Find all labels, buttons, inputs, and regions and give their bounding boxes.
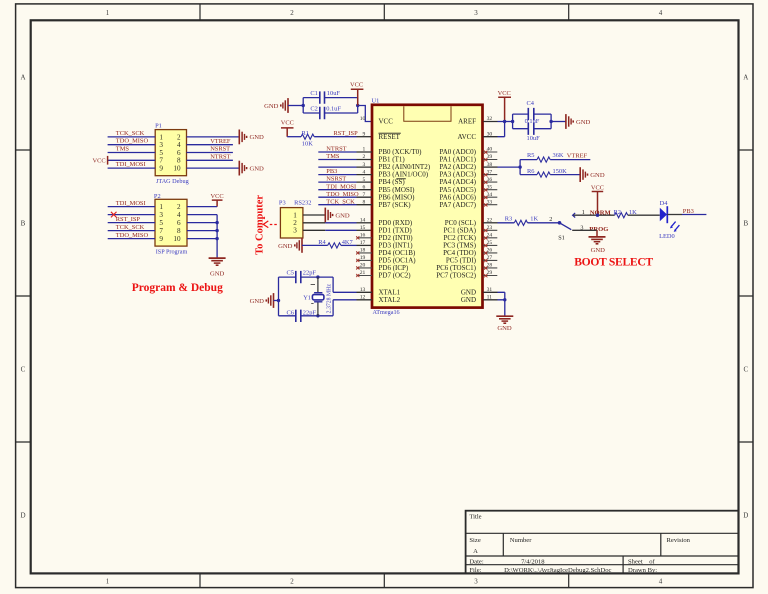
svg-text:TCK_SCK: TCK_SCK — [326, 198, 355, 205]
svg-text:Program & Debug: Program & Debug — [132, 282, 223, 294]
svg-text:GND: GND — [250, 134, 265, 141]
svg-text:0.1uF: 0.1uF — [326, 105, 341, 112]
U1 right pin names — [436, 118, 476, 304]
capacitor C4b 10uF — [527, 123, 541, 143]
svg-text:VTREF: VTREF — [210, 138, 231, 145]
wire C1/C2 parallel network — [288, 98, 372, 122]
svg-text:GND: GND — [278, 243, 293, 250]
svg-text:C2: C2 — [310, 105, 317, 112]
svg-text:Revision: Revision — [667, 537, 691, 544]
svg-text:1: 1 — [159, 203, 163, 211]
capacitor C4 0.1uF — [525, 100, 540, 125]
svg-text:3: 3 — [474, 578, 478, 586]
U1 right pin numbers — [487, 116, 493, 300]
svg-text:36K: 36K — [553, 152, 564, 159]
svg-text:8: 8 — [177, 227, 181, 235]
svg-text:A: A — [743, 74, 748, 82]
svg-text:3: 3 — [293, 227, 297, 235]
svg-text:Y1: Y1 — [303, 295, 311, 302]
junction node C1C2 left — [302, 104, 305, 107]
svg-text:TDO_MISO: TDO_MISO — [116, 232, 149, 239]
svg-text:4: 4 — [177, 141, 181, 149]
svg-text:7/4/2018: 7/4/2018 — [521, 559, 545, 566]
svg-text:17: 17 — [360, 240, 366, 246]
svg-text:PD7 (OC2): PD7 (OC2) — [379, 272, 412, 280]
svg-text:GND: GND — [590, 172, 605, 179]
svg-text:XTAL2: XTAL2 — [379, 296, 401, 304]
svg-text:ISP Program: ISP Program — [156, 249, 188, 256]
wire P2 left pins — [108, 207, 155, 239]
svg-text:GND: GND — [576, 119, 591, 126]
svg-text:3: 3 — [474, 9, 478, 17]
svg-text:10: 10 — [173, 165, 181, 173]
svg-text:1K: 1K — [530, 215, 538, 222]
power VCC above switch — [591, 184, 604, 215]
power VCC at P2 pin 2 — [211, 193, 224, 207]
junction node NORM/VCC — [596, 214, 599, 217]
svg-text:C: C — [21, 366, 26, 374]
svg-text:D:\WORK\..\AvrJtagIceDebug2.Sc: D:\WORK\..\AvrJtagIceDebug2.SchDoc — [504, 567, 611, 574]
resistor R4 4K7 — [302, 239, 372, 248]
svg-text:PC7 (TOSC2): PC7 (TOSC2) — [436, 272, 476, 280]
capacitor C5 22pF — [287, 270, 317, 284]
svg-text:D: D — [20, 512, 25, 520]
svg-text:3: 3 — [159, 211, 163, 219]
no-ERC markers on left stubs — [356, 236, 359, 277]
svg-text:Title: Title — [469, 514, 481, 521]
svg-text:A: A — [20, 74, 25, 82]
svg-text:ATmega16: ATmega16 — [373, 309, 400, 316]
svg-text:D: D — [743, 512, 748, 520]
svg-text:BOOT SELECT: BOOT SELECT — [574, 255, 653, 268]
svg-text:Date:: Date: — [469, 559, 483, 566]
svg-text:15: 15 — [360, 225, 366, 231]
U1 unconnected left pin stubs — [357, 238, 373, 276]
svg-text:2: 2 — [549, 216, 552, 223]
svg-text:14: 14 — [360, 218, 366, 224]
ground GND below U1 — [496, 316, 513, 332]
wire switch pin 3 line — [572, 229, 597, 231]
svg-text:C6: C6 — [287, 309, 294, 316]
power VCC above R1 — [281, 119, 294, 136]
svg-text:Drawn By:: Drawn By: — [628, 567, 657, 574]
svg-text:1: 1 — [159, 133, 163, 141]
svg-text:2: 2 — [177, 203, 181, 211]
svg-text:GND: GND — [591, 247, 606, 254]
svg-text:C: C — [743, 366, 748, 374]
svg-text:TDI_MOSI: TDI_MOSI — [326, 183, 356, 190]
U1 left pin numbers — [360, 116, 366, 300]
svg-text:4K7: 4K7 — [342, 239, 354, 246]
resistor R1 10K — [287, 130, 372, 148]
wire switch pin 1 line — [574, 214, 615, 216]
svg-text:Size: Size — [469, 537, 480, 544]
svg-text:10: 10 — [173, 235, 181, 243]
svg-text:10: 10 — [360, 116, 366, 122]
svg-text:PB3: PB3 — [683, 208, 694, 215]
svg-text:VCC: VCC — [211, 193, 224, 200]
junction node C4 left — [511, 120, 514, 123]
svg-text:GND: GND — [210, 270, 225, 277]
annotation dashed arrow to P3 — [263, 221, 277, 228]
svg-text:VTREF: VTREF — [567, 152, 588, 159]
ground GND below switch — [589, 230, 606, 254]
wire P3 pin 3 to U1 PD1 — [303, 229, 325, 231]
svg-text:Sheet of: Sheet of — [628, 559, 656, 566]
wire R3 to switch pin 2 — [528, 222, 560, 224]
svg-text:4: 4 — [177, 211, 181, 219]
svg-text:C4: C4 — [527, 100, 535, 107]
U1 PB4 SS overline — [396, 178, 406, 180]
svg-text:VCC: VCC — [591, 184, 604, 191]
svg-text:B: B — [743, 220, 748, 228]
svg-text:B: B — [21, 220, 26, 228]
svg-text:R6: R6 — [527, 168, 534, 175]
svg-text:GND: GND — [335, 212, 350, 219]
svg-text:4: 4 — [659, 578, 663, 586]
wire P1 left pins — [108, 137, 156, 168]
svg-text:TMS: TMS — [326, 153, 340, 160]
svg-text:VCC: VCC — [281, 119, 294, 126]
wire U1 PA2 to R5/R6 divider — [483, 166, 497, 168]
svg-text:RS232: RS232 — [294, 200, 311, 207]
svg-text:R2: R2 — [614, 209, 621, 216]
svg-text:6: 6 — [177, 149, 181, 157]
ground GND right of R6 — [580, 167, 605, 182]
wire P2 right pins to ground rail — [187, 207, 217, 259]
junction node C1C2 right — [356, 104, 359, 107]
junction node crystal bottom — [316, 314, 319, 317]
svg-text:9: 9 — [363, 131, 366, 137]
svg-text:NSRST: NSRST — [210, 146, 230, 153]
U1 RESET overline — [379, 132, 401, 134]
svg-text:VCC: VCC — [350, 82, 363, 89]
svg-text:NTRST: NTRST — [210, 154, 230, 161]
svg-text:AREF: AREF — [458, 118, 476, 126]
ground GND below P2 — [209, 258, 226, 277]
svg-text:RST_ISP: RST_ISP — [334, 130, 359, 137]
svg-text:C1: C1 — [310, 90, 317, 97]
svg-text:TDO_MISO: TDO_MISO — [326, 191, 359, 198]
svg-text:2: 2 — [290, 578, 294, 586]
svg-text:File:: File: — [469, 567, 481, 574]
svg-text:GND: GND — [250, 165, 265, 172]
resistor R5 36K — [527, 152, 564, 162]
svg-text:2: 2 — [290, 9, 294, 17]
junction node C4 right — [549, 120, 552, 123]
svg-text:GND: GND — [250, 298, 265, 305]
svg-text:R1: R1 — [302, 130, 309, 137]
connector P3 RS232 — [279, 200, 312, 238]
junction dots on P2 ground rail — [215, 221, 218, 240]
svg-text:2: 2 — [177, 133, 181, 141]
svg-text:4: 4 — [659, 9, 663, 17]
svg-text:C5: C5 — [287, 270, 294, 277]
capacitor C2 0.1uF — [310, 105, 341, 119]
svg-text:R4: R4 — [318, 239, 326, 246]
svg-text:1: 1 — [106, 9, 110, 17]
switch S1 — [549, 209, 585, 242]
ground GND at P1 pin 2 — [239, 130, 264, 145]
ground GND right of C4 — [566, 114, 591, 129]
svg-text:RESET: RESET — [379, 133, 401, 141]
wire U1 PC0 to R3 — [483, 222, 497, 224]
svg-text:22pF: 22pF — [303, 270, 317, 277]
capacitor C1 10uF — [310, 90, 340, 104]
junction node crystal top — [316, 275, 319, 278]
svg-text:P3: P3 — [279, 200, 286, 207]
crystal Y1 2.3728 MHz — [303, 277, 332, 316]
svg-text:S1: S1 — [558, 234, 565, 241]
ground GND left of R4 — [278, 238, 302, 253]
svg-text:3: 3 — [159, 141, 163, 149]
svg-text:GND: GND — [497, 325, 512, 332]
svg-text:VCC: VCC — [92, 157, 105, 164]
svg-text:VCC: VCC — [379, 118, 394, 126]
no-ERC marker on P2 pin 3 — [111, 212, 117, 218]
svg-text:U1: U1 — [372, 98, 380, 105]
junction node PA2 split — [518, 165, 521, 168]
wire U1 PB0..PB7 nets — [318, 152, 356, 205]
ground GND left of crystal — [250, 293, 274, 308]
svg-text:NTRST: NTRST — [326, 146, 346, 153]
svg-text:5: 5 — [159, 219, 163, 227]
no-ERC markers on right stubs — [484, 151, 487, 278]
svg-text:JTAG Debug: JTAG Debug — [156, 178, 189, 185]
svg-text:TCK_SCK: TCK_SCK — [116, 130, 145, 137]
resistor R3 1K — [505, 215, 539, 225]
op-amp U1 ATmega16 MCU body — [372, 98, 483, 316]
svg-text:2.3728 MHz: 2.3728 MHz — [326, 284, 332, 314]
ground GND at P3 pin 1 — [325, 208, 350, 223]
svg-text:R3: R3 — [505, 215, 512, 222]
svg-text:10uF: 10uF — [327, 90, 341, 97]
svg-text:150K: 150K — [553, 168, 568, 175]
svg-text:1: 1 — [106, 578, 110, 586]
wire R2 to LED — [628, 214, 660, 216]
svg-text:0.1uF: 0.1uF — [525, 118, 540, 125]
svg-text:RST_ISP: RST_ISP — [116, 216, 141, 223]
svg-text:PA7 (ADC7): PA7 (ADC7) — [440, 201, 477, 209]
svg-text:P1: P1 — [155, 122, 162, 129]
svg-text:TDI_MOSI: TDI_MOSI — [116, 161, 146, 168]
svg-text:AVCC: AVCC — [457, 133, 476, 141]
power VCC above AREF — [498, 90, 511, 122]
power VCC above C1/C2 — [350, 82, 363, 106]
svg-text:D4: D4 — [660, 200, 669, 207]
svg-text:22pF: 22pF — [303, 309, 317, 316]
wire crystal network — [274, 277, 357, 316]
wire P3 pin 1 to ground — [303, 214, 325, 216]
svg-text:GND: GND — [461, 296, 476, 304]
junction node at U1 GND rail — [503, 298, 506, 301]
svg-text:5: 5 — [159, 149, 163, 157]
svg-text:VCC: VCC — [498, 90, 511, 97]
connector P2 ISP Program — [154, 193, 188, 256]
svg-text:10K: 10K — [302, 141, 313, 148]
svg-text:A: A — [473, 548, 478, 555]
svg-text:7: 7 — [159, 227, 163, 235]
wire C4 parallel rails — [513, 114, 566, 129]
svg-text:9: 9 — [159, 235, 163, 243]
svg-text:6: 6 — [177, 219, 181, 227]
LED D4 LED0 — [659, 200, 679, 240]
svg-text:10uF: 10uF — [527, 135, 541, 142]
svg-text:TMS: TMS — [116, 146, 130, 153]
svg-text:TCK_SCK: TCK_SCK — [116, 224, 145, 231]
wire U1 GND pins 31/11 to ground — [483, 292, 497, 300]
capacitor C6 22pF — [287, 309, 317, 322]
resistor R6 150K — [527, 168, 567, 177]
U1 unconnected right pin stubs — [483, 152, 497, 276]
svg-text:NSRST: NSRST — [326, 176, 346, 183]
junction node crystal left — [277, 299, 280, 302]
svg-text:GND: GND — [264, 103, 279, 110]
connector P1 JTAG Debug — [155, 122, 189, 185]
svg-text:TDO_MISO: TDO_MISO — [116, 138, 149, 145]
svg-text:TDI_MOSI: TDI_MOSI — [116, 200, 146, 207]
wire P3 pin 2 to U1 PD0 — [303, 222, 325, 224]
power VCC at P1 pin 7 — [92, 156, 107, 165]
svg-text:8: 8 — [177, 157, 181, 165]
wire P1 right pins — [187, 137, 240, 168]
resistor R2 1K — [614, 209, 638, 218]
svg-text:R5: R5 — [527, 152, 534, 159]
title block — [466, 511, 739, 574]
svg-text:LED0: LED0 — [659, 233, 675, 240]
svg-text:1: 1 — [293, 211, 297, 219]
ground GND left of C1/C2 — [264, 98, 288, 113]
ground GND at P1 pin 10 — [239, 161, 264, 176]
svg-text:P2: P2 — [154, 193, 161, 200]
svg-text:Number: Number — [510, 537, 532, 544]
wire LED to PB3 — [667, 214, 682, 216]
svg-text:9: 9 — [159, 165, 163, 173]
svg-text:PB7 (SCK): PB7 (SCK) — [379, 201, 412, 209]
svg-text:7: 7 — [159, 157, 163, 165]
wire U1 AREF/AVCC to VCC and C4 — [483, 122, 497, 137]
junction node AREF/VCC — [503, 120, 506, 123]
U1 left pin names — [379, 118, 431, 304]
svg-text:PB3: PB3 — [326, 168, 337, 175]
